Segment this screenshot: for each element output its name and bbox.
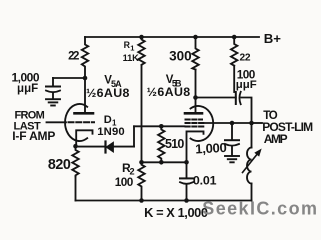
wire diode step up <box>133 126 135 146</box>
resistor R2 100 <box>138 162 144 200</box>
node bottom R2 <box>139 198 144 203</box>
V5B grid g2 (dashed) <box>186 122 204 124</box>
node bottom 0.01 <box>184 198 189 203</box>
wire cap to output corner <box>241 98 251 124</box>
wire cathode to diode <box>76 146 106 148</box>
svg-text:820: 820 <box>48 157 71 173</box>
wire 300 to plate junction <box>195 70 197 98</box>
svg-text:D: D <box>104 114 112 126</box>
wire plate node to cap <box>196 97 236 99</box>
svg-text:SeekIC.com: SeekIC.com <box>202 198 317 218</box>
svg-text:11K: 11K <box>123 53 140 63</box>
V5A grid (dashed) <box>69 121 95 123</box>
tube V5B envelope <box>191 106 214 141</box>
wire plate lead V5B <box>195 98 197 113</box>
V5A plate <box>75 112 94 115</box>
node top R1 <box>139 35 144 40</box>
svg-text:1N90: 1N90 <box>97 126 125 138</box>
wire bottom rail <box>76 200 252 202</box>
capacitor 1000uuF input <box>52 78 54 87</box>
svg-text:B+: B+ <box>264 31 281 46</box>
node input cap / plate V5A <box>83 76 88 81</box>
svg-text:I-F AMP: I-F AMP <box>12 129 55 143</box>
resistor 300 <box>192 37 198 70</box>
variable inductor <box>251 123 253 148</box>
capacitor 0.01 <box>186 162 188 178</box>
ground (input cap) <box>46 98 60 100</box>
V5B cathode <box>187 131 204 162</box>
node mid rail 510 <box>159 160 164 165</box>
wire input-cap to node <box>53 77 85 79</box>
capacitor 100uuF coupling <box>235 92 237 104</box>
svg-text:AMP: AMP <box>264 132 288 146</box>
wire R1 bottom to R2 top <box>141 65 143 162</box>
node grid V5B / 510 <box>159 124 164 129</box>
wire mid rail (cathode bias) <box>142 161 187 163</box>
resistor 820 <box>72 146 78 177</box>
wire 820 to bottom rail <box>75 177 77 201</box>
svg-text:½6AU8: ½6AU8 <box>86 86 129 100</box>
svg-text:1,000: 1,000 <box>195 140 227 157</box>
svg-text:510: 510 <box>165 137 184 151</box>
V5A cathode <box>76 130 92 146</box>
wire 22R down to coupling cap <box>233 66 235 92</box>
svg-text:1: 1 <box>130 43 134 52</box>
svg-text:22: 22 <box>68 51 79 63</box>
diode D1 1N90 <box>104 142 106 153</box>
node mid rail cathode <box>184 160 189 165</box>
svg-text:½6AU8: ½6AU8 <box>147 85 191 99</box>
node top 300 <box>193 35 198 40</box>
V5B plate <box>185 112 202 115</box>
node cathode V5A <box>73 144 78 149</box>
svg-text:K = X 1,000: K = X 1,000 <box>144 205 208 220</box>
wire top B+ rail <box>85 36 259 38</box>
node plate V5B <box>193 95 198 100</box>
V5B grid g3 (dashed) <box>186 126 204 128</box>
node top 22R <box>232 35 237 40</box>
capacitor 1000 to ground <box>231 123 233 140</box>
ground (1000 cap) <box>225 155 239 157</box>
node quadrature 1000 <box>230 121 235 126</box>
wire quadrature grid to output node <box>205 122 252 124</box>
node mid rail R2 <box>139 160 144 165</box>
svg-text:300: 300 <box>169 49 192 64</box>
wire grid input <box>47 121 67 123</box>
resistor 510 <box>158 126 164 162</box>
arrow (variable) <box>243 154 258 173</box>
wire output stub <box>252 122 263 124</box>
svg-text:μμF: μμF <box>17 83 38 95</box>
svg-text:0.01: 0.01 <box>193 174 217 188</box>
svg-text:22: 22 <box>240 53 251 64</box>
resistor 22 (left) <box>82 37 88 78</box>
svg-text:100: 100 <box>115 175 134 189</box>
wire to V5B control grid <box>134 125 185 127</box>
V5B grid g1 (dashed) <box>186 119 203 121</box>
svg-text:μμF: μμF <box>236 79 257 91</box>
wire plate lead V5A <box>84 78 86 113</box>
tube V5A envelope <box>65 104 87 141</box>
resistor 22 (right) <box>231 37 237 66</box>
resistor R1 11K <box>138 37 144 65</box>
node output <box>249 121 254 126</box>
